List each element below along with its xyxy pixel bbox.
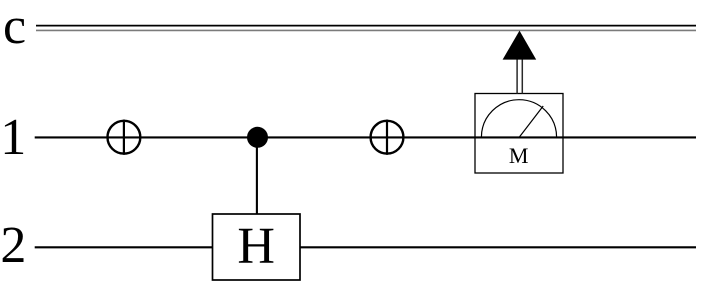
control dot (on qubit 1)	[247, 127, 268, 148]
X gate vertical bar (second)	[386, 120, 388, 155]
X gate circle (second CNOT target on qubit 1)	[371, 121, 404, 154]
X gate circle (first CNOT target on qubit 1)	[108, 121, 141, 154]
wire (qubit 2)	[35, 246, 696, 248]
label 2 (qubit wire 2)	[0, 217, 26, 274]
classical wire c (upper line)	[36, 25, 696, 27]
label 1 (qubit wire 1)	[0, 109, 26, 166]
classical wire c (lower line)	[36, 29, 696, 31]
gate label H	[237, 218, 275, 275]
svg-text:c: c	[3, 0, 26, 55]
measurement label M	[509, 143, 529, 168]
meter needle	[520, 106, 544, 137]
svg-text:H: H	[237, 218, 275, 275]
wire (control vertical segment from qubit 1 to H gate)	[256, 137, 258, 214]
double classical line from measurement to wire c (right)	[521, 59, 523, 94]
meter dial arc	[481, 100, 556, 138]
label c (classical register)	[3, 0, 26, 55]
wire (qubit 1)	[35, 136, 696, 138]
svg-text:2: 2	[0, 217, 26, 274]
measurement box M (on qubit 1)	[475, 94, 563, 174]
svg-text:M: M	[509, 143, 529, 168]
double classical line from measurement to wire c (left)	[516, 59, 518, 94]
arrow head into classical wire c	[503, 31, 537, 60]
svg-text:1: 1	[0, 109, 26, 166]
gate box H (on qubit 2)	[213, 214, 301, 280]
X gate vertical bar (first)	[123, 120, 125, 155]
